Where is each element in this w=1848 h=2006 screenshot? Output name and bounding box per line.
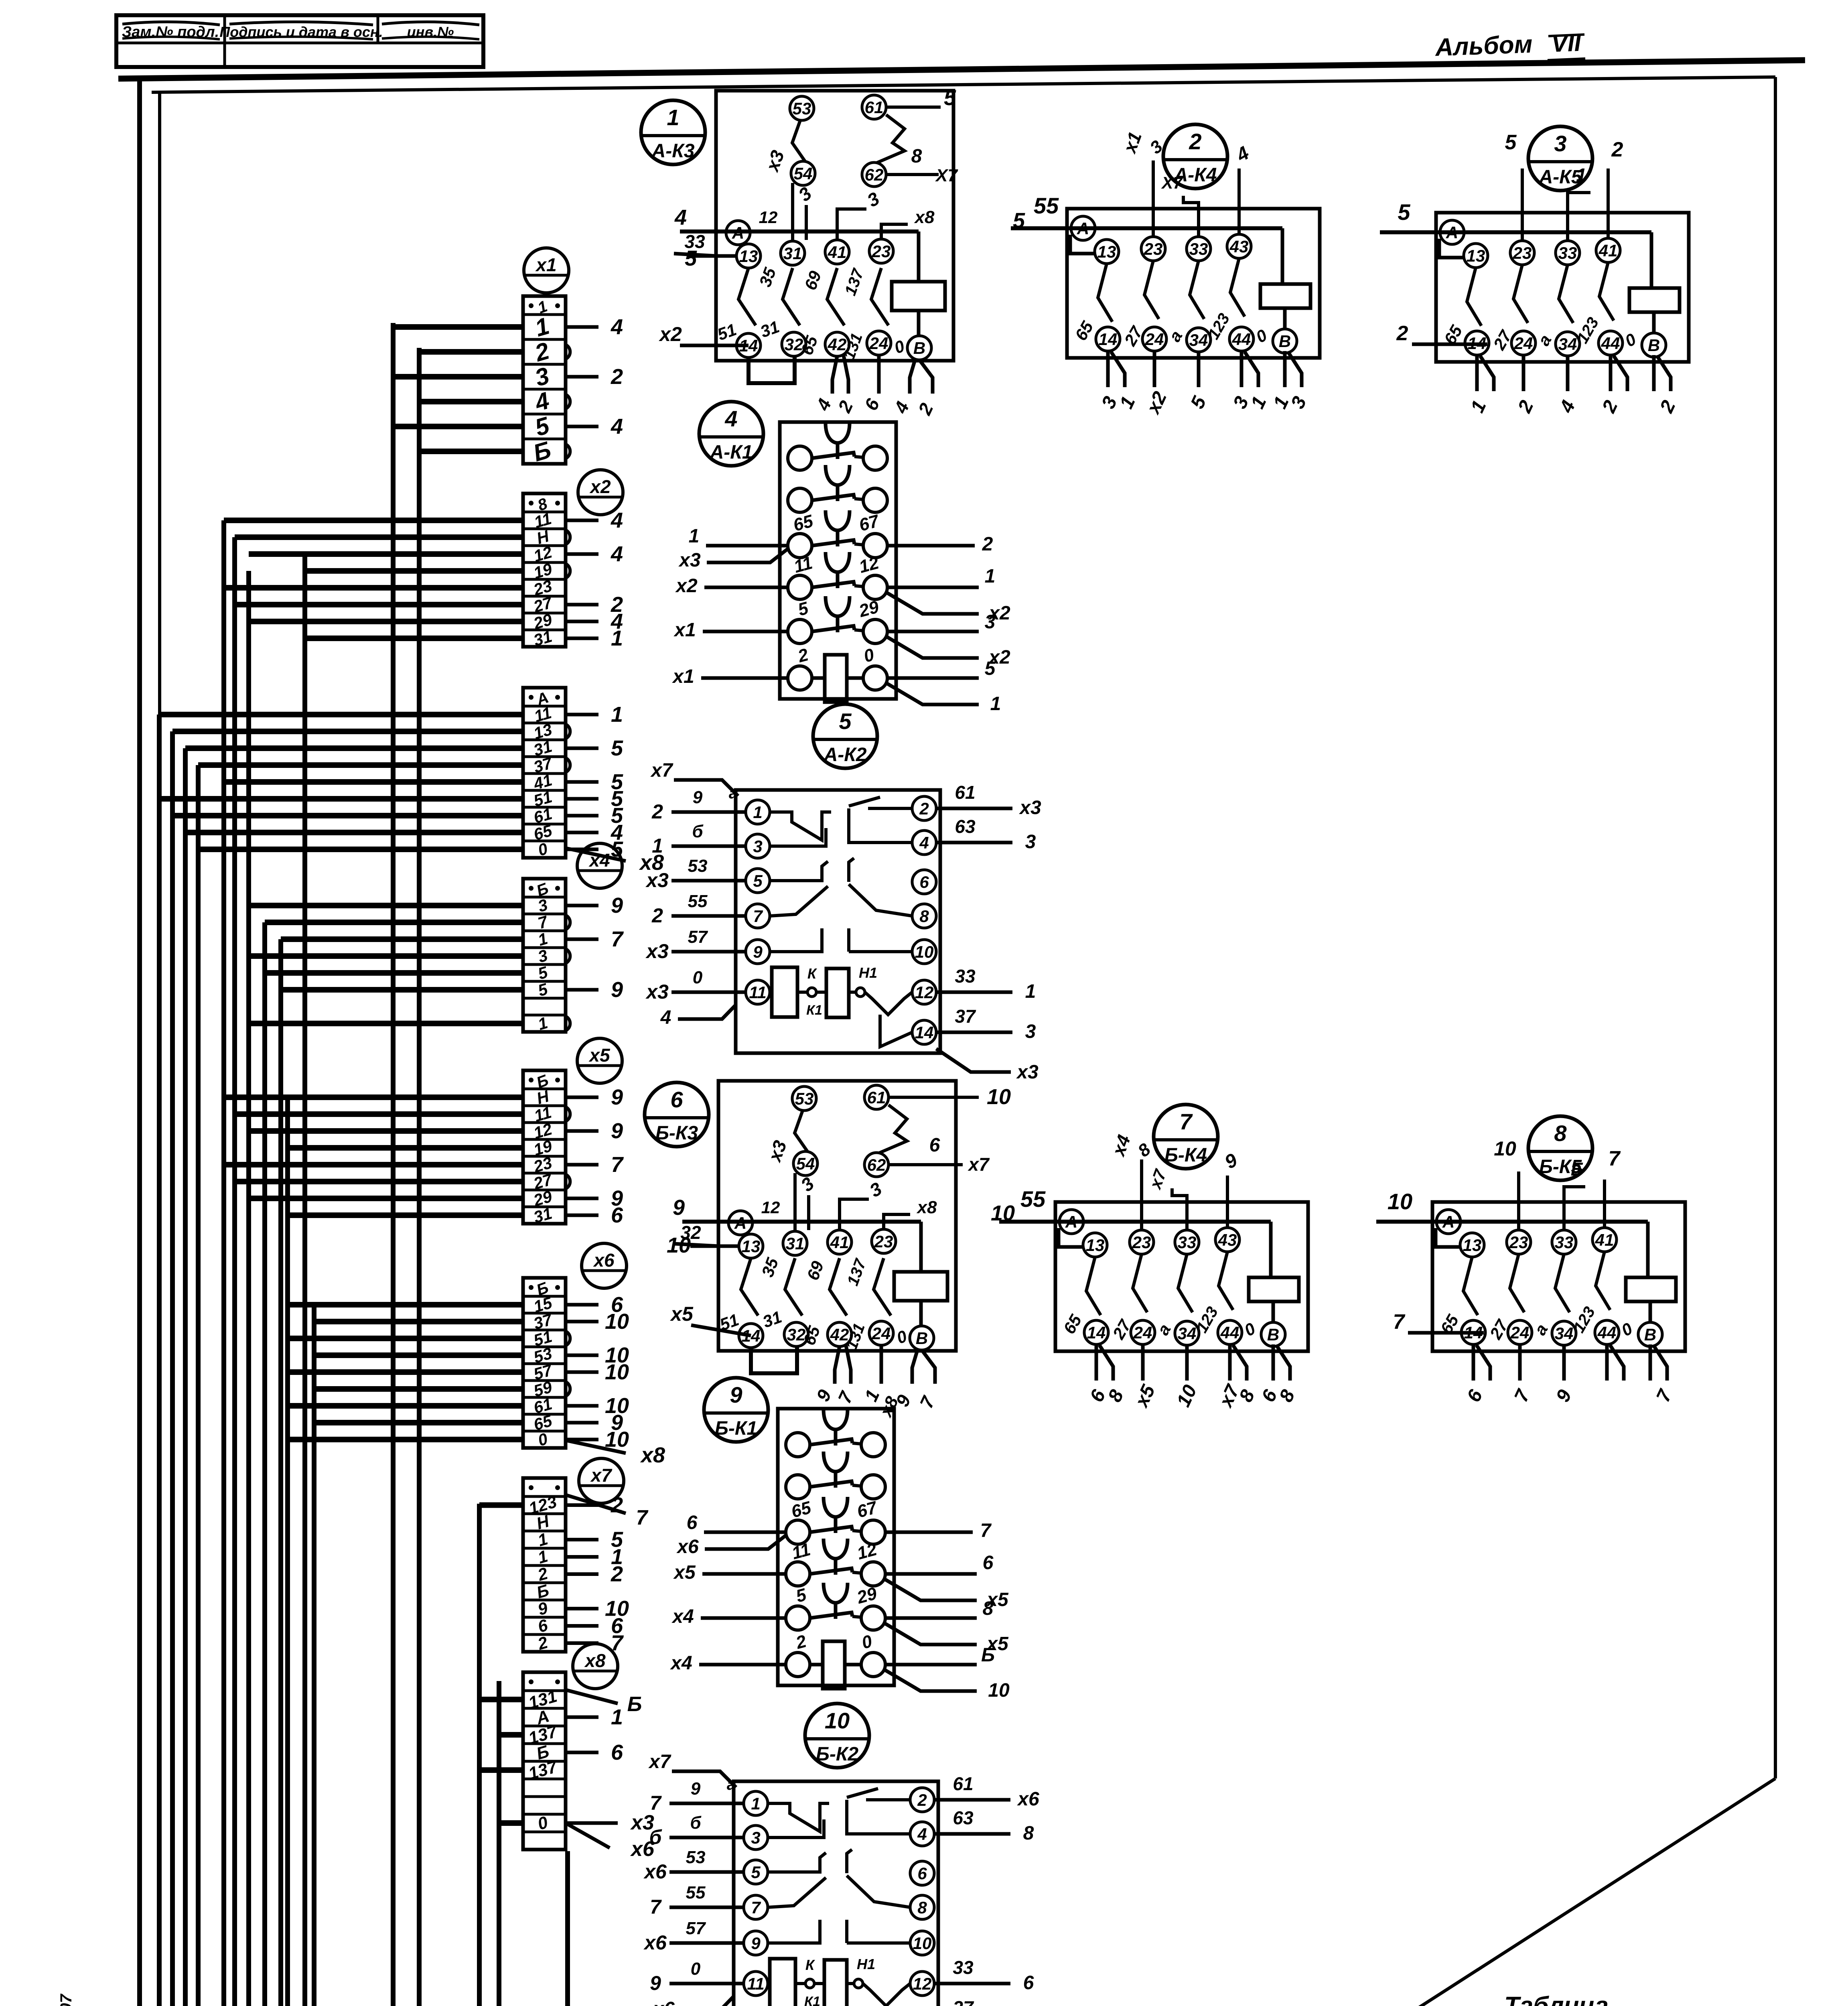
svg-text:4: 4 xyxy=(611,542,623,566)
svg-text:13: 13 xyxy=(742,1237,761,1256)
svg-text:2: 2 xyxy=(1396,322,1408,345)
svg-text:5: 5 xyxy=(611,736,623,760)
svg-text:43: 43 xyxy=(1229,237,1249,256)
svg-text:7: 7 xyxy=(650,1896,662,1918)
svg-text:х4: х4 xyxy=(588,850,610,871)
svg-text:6: 6 xyxy=(929,1135,940,1156)
svg-text:х4: х4 xyxy=(671,1606,694,1627)
svg-text:2: 2 xyxy=(651,800,663,823)
svg-text:8: 8 xyxy=(1023,1823,1034,1844)
svg-text:44: 44 xyxy=(1220,1323,1239,1342)
svg-text:11: 11 xyxy=(749,983,767,1002)
svg-text:5: 5 xyxy=(1013,209,1025,233)
svg-text:2: 2 xyxy=(651,904,663,927)
svg-text:1: 1 xyxy=(753,803,762,822)
svg-text:1: 1 xyxy=(1025,981,1036,1002)
svg-text:8: 8 xyxy=(919,907,929,926)
svg-text:3: 3 xyxy=(1025,831,1036,853)
svg-text:53: 53 xyxy=(795,1089,814,1108)
svg-text:53: 53 xyxy=(793,99,811,118)
svg-text:В: В xyxy=(1279,332,1291,351)
svg-text:12: 12 xyxy=(913,1974,932,1993)
svg-text:х3: х3 xyxy=(645,940,669,962)
svg-text:6: 6 xyxy=(687,1512,698,1533)
svg-text:44: 44 xyxy=(1232,330,1251,349)
svg-text:5: 5 xyxy=(1398,199,1410,225)
svg-text:х6: х6 xyxy=(652,1998,675,2006)
svg-text:0: 0 xyxy=(693,968,703,987)
svg-text:33: 33 xyxy=(1178,1233,1197,1252)
svg-text:61: 61 xyxy=(955,782,975,803)
svg-text:24: 24 xyxy=(1514,334,1533,353)
svg-text:2: 2 xyxy=(611,1562,623,1586)
svg-text:1: 1 xyxy=(611,1705,623,1729)
svg-text:33: 33 xyxy=(1558,244,1577,262)
svg-text:1: 1 xyxy=(985,566,996,587)
svg-text:57: 57 xyxy=(688,927,708,947)
svg-text:41: 41 xyxy=(830,1233,849,1252)
svg-text:В: В xyxy=(1644,1325,1656,1344)
svg-text:3: 3 xyxy=(753,837,762,856)
svg-text:х1: х1 xyxy=(671,666,694,687)
svg-text:12: 12 xyxy=(915,983,934,1002)
svg-text:9: 9 xyxy=(611,1119,623,1143)
svg-text:х2: х2 xyxy=(658,323,682,345)
svg-text:3: 3 xyxy=(1025,1021,1036,1042)
svg-text:1: 1 xyxy=(611,703,623,727)
svg-text:41: 41 xyxy=(1595,1230,1614,1249)
svg-text:1: 1 xyxy=(611,626,623,650)
svg-text:13: 13 xyxy=(1097,242,1116,261)
svg-text:33: 33 xyxy=(1189,240,1208,258)
svg-text:31: 31 xyxy=(786,1234,805,1253)
svg-text:11: 11 xyxy=(747,1974,765,1993)
svg-text:х3: х3 xyxy=(678,550,701,571)
svg-text:Б: Б xyxy=(981,1645,995,1666)
svg-text:х3: х3 xyxy=(645,869,669,891)
svg-text:10: 10 xyxy=(605,1360,629,1384)
svg-text:13: 13 xyxy=(1463,1236,1482,1255)
svg-text:57: 57 xyxy=(686,1919,706,1938)
svg-text:43: 43 xyxy=(1218,1230,1237,1249)
svg-text:6: 6 xyxy=(670,1087,683,1112)
svg-text:41: 41 xyxy=(1598,241,1618,260)
svg-text:31: 31 xyxy=(783,244,802,263)
svg-text:10: 10 xyxy=(913,1934,932,1953)
svg-text:3: 3 xyxy=(751,1828,760,1847)
svg-text:10: 10 xyxy=(991,1201,1015,1225)
svg-text:5: 5 xyxy=(751,1863,761,1882)
svg-text:54: 54 xyxy=(796,1154,815,1173)
svg-text:7: 7 xyxy=(751,1898,761,1917)
svg-text:9: 9 xyxy=(730,1382,742,1407)
svg-text:4: 4 xyxy=(611,315,623,339)
svg-text:7: 7 xyxy=(1179,1109,1193,1134)
svg-text:9: 9 xyxy=(611,1085,623,1109)
svg-text:3: 3 xyxy=(1554,131,1566,156)
svg-text:1: 1 xyxy=(652,834,663,857)
svg-text:Х7: Х7 xyxy=(935,166,958,185)
svg-text:5: 5 xyxy=(753,871,763,890)
svg-text:б: б xyxy=(649,1826,663,1848)
svg-text:23: 23 xyxy=(872,242,891,261)
svg-text:53: 53 xyxy=(688,856,708,876)
svg-text:9: 9 xyxy=(691,1779,701,1799)
svg-text:Б: Б xyxy=(627,1693,642,1716)
svg-text:12: 12 xyxy=(759,208,778,227)
svg-text:23: 23 xyxy=(874,1232,893,1251)
svg-text:Таблица: Таблица xyxy=(1504,1992,1609,2006)
svg-text:х6: х6 xyxy=(643,1860,667,1883)
svg-text:62: 62 xyxy=(865,165,884,184)
svg-text:Х7: Х7 xyxy=(1161,173,1183,192)
svg-text:23: 23 xyxy=(1509,1233,1528,1252)
svg-text:а: а xyxy=(729,784,738,802)
svg-text:Н1: Н1 xyxy=(857,1956,875,1972)
svg-text:2: 2 xyxy=(1189,129,1201,154)
svg-text:53: 53 xyxy=(686,1848,706,1867)
svg-text:6: 6 xyxy=(919,873,929,891)
svg-text:х8: х8 xyxy=(584,1650,606,1671)
svg-text:61: 61 xyxy=(865,98,884,117)
svg-text:13: 13 xyxy=(1086,1236,1105,1255)
svg-text:23: 23 xyxy=(1513,244,1532,262)
svg-text:37: 37 xyxy=(953,1997,974,2006)
svg-text:Б-К4: Б-К4 xyxy=(1164,1145,1207,1166)
svg-text:9: 9 xyxy=(611,978,623,1002)
svg-text:4: 4 xyxy=(724,406,737,431)
svg-text:23: 23 xyxy=(1144,240,1163,258)
svg-text:2: 2 xyxy=(1611,138,1623,161)
svg-text:5: 5 xyxy=(839,709,852,734)
svg-text:К1: К1 xyxy=(804,1994,820,2006)
svg-text:7: 7 xyxy=(611,1153,624,1177)
svg-text:33: 33 xyxy=(1555,1233,1574,1252)
svg-text:В: В xyxy=(916,1329,928,1348)
svg-text:х5: х5 xyxy=(588,1045,611,1066)
svg-text:х2: х2 xyxy=(589,476,611,497)
svg-text:10: 10 xyxy=(605,1310,629,1334)
svg-text:2: 2 xyxy=(611,365,623,389)
svg-text:13: 13 xyxy=(1467,246,1485,265)
svg-text:7: 7 xyxy=(1393,1310,1406,1334)
svg-text:4: 4 xyxy=(917,1825,927,1844)
svg-text:0: 0 xyxy=(691,1959,701,1979)
svg-text:х4: х4 xyxy=(669,1653,692,1674)
svg-text:х8: х8 xyxy=(914,207,935,227)
svg-text:б: б xyxy=(692,822,704,841)
svg-text:В: В xyxy=(1267,1325,1279,1344)
svg-text:6: 6 xyxy=(611,1740,623,1764)
svg-text:Б-К2: Б-К2 xyxy=(816,1744,858,1765)
svg-text:10: 10 xyxy=(825,1708,850,1733)
svg-text:33: 33 xyxy=(955,966,976,987)
svg-text:14: 14 xyxy=(1099,330,1118,349)
svg-text:14: 14 xyxy=(1087,1323,1106,1342)
svg-text:23: 23 xyxy=(1132,1233,1151,1252)
svg-text:х8: х8 xyxy=(640,1443,665,1467)
svg-text:х8: х8 xyxy=(917,1198,937,1217)
svg-text:1: 1 xyxy=(689,526,700,547)
svg-text:4: 4 xyxy=(660,1007,671,1028)
svg-text:х5: х5 xyxy=(673,1562,696,1583)
svg-text:Альбом: Альбом xyxy=(1434,30,1533,61)
svg-text:8: 8 xyxy=(983,1598,994,1619)
svg-text:5: 5 xyxy=(985,658,996,679)
svg-text:х3: х3 xyxy=(1018,797,1041,818)
svg-text:х7: х7 xyxy=(650,760,673,781)
svg-text:61: 61 xyxy=(953,1773,973,1794)
svg-text:х6: х6 xyxy=(643,1931,667,1954)
svg-text:2: 2 xyxy=(917,1791,927,1809)
svg-text:х6: х6 xyxy=(592,1250,615,1271)
svg-text:4: 4 xyxy=(919,833,929,852)
svg-text:13: 13 xyxy=(739,247,758,266)
svg-text:Б: Б xyxy=(1571,1159,1584,1180)
svg-text:Н1: Н1 xyxy=(859,964,877,981)
svg-text:х2: х2 xyxy=(675,575,698,597)
svg-text:А-К3: А-К3 xyxy=(651,140,695,162)
svg-text:7: 7 xyxy=(980,1520,992,1541)
svg-text:3: 3 xyxy=(985,611,996,633)
svg-text:7: 7 xyxy=(636,1506,649,1529)
svg-text:А-К2: А-К2 xyxy=(824,744,867,765)
svg-text:х3: х3 xyxy=(645,981,669,1003)
svg-text:А-К1: А-К1 xyxy=(710,442,753,463)
svg-text:б: б xyxy=(690,1813,702,1833)
svg-text:55: 55 xyxy=(688,891,708,911)
svg-text:4: 4 xyxy=(611,508,623,532)
svg-text:4: 4 xyxy=(611,414,623,439)
svg-text:20850-07: 20850-07 xyxy=(57,1994,75,2006)
svg-text:14: 14 xyxy=(915,1023,934,1042)
svg-text:44: 44 xyxy=(1601,334,1620,353)
svg-text:12: 12 xyxy=(761,1198,780,1217)
svg-text:7: 7 xyxy=(1609,1147,1621,1170)
svg-text:10: 10 xyxy=(1494,1137,1516,1160)
svg-text:55: 55 xyxy=(686,1883,706,1902)
svg-text:62: 62 xyxy=(867,1155,886,1174)
svg-text:Б-К3: Б-К3 xyxy=(655,1123,698,1144)
svg-text:10: 10 xyxy=(1388,1189,1412,1214)
svg-text:9: 9 xyxy=(650,1972,661,1994)
svg-text:10: 10 xyxy=(988,1680,1010,1701)
svg-text:55: 55 xyxy=(1034,193,1059,218)
svg-text:8: 8 xyxy=(917,1898,927,1917)
svg-text:1: 1 xyxy=(1576,164,1586,185)
svg-text:х1: х1 xyxy=(673,619,696,641)
svg-text:24: 24 xyxy=(869,334,889,353)
svg-text:10: 10 xyxy=(987,1085,1011,1109)
svg-text:54: 54 xyxy=(794,164,813,183)
svg-text:55: 55 xyxy=(1020,1186,1046,1212)
svg-text:К: К xyxy=(807,965,818,982)
svg-text:а: а xyxy=(727,1776,736,1793)
svg-text:В: В xyxy=(1648,336,1660,355)
svg-text:6: 6 xyxy=(1023,1972,1034,1994)
svg-text:5: 5 xyxy=(944,86,956,110)
svg-text:К1: К1 xyxy=(806,1003,822,1018)
svg-text:7: 7 xyxy=(650,1792,662,1814)
svg-text:41: 41 xyxy=(828,243,847,262)
svg-text:4: 4 xyxy=(674,205,687,229)
svg-text:7: 7 xyxy=(753,907,763,926)
svg-text:х6: х6 xyxy=(676,1536,699,1557)
svg-text:2: 2 xyxy=(919,799,929,818)
svg-text:1: 1 xyxy=(667,105,679,130)
svg-text:9: 9 xyxy=(753,942,763,961)
svg-text:24: 24 xyxy=(872,1324,891,1343)
svg-text:9: 9 xyxy=(693,788,703,807)
svg-text:6: 6 xyxy=(917,1864,927,1883)
svg-text:2: 2 xyxy=(982,534,993,555)
svg-text:63: 63 xyxy=(953,1807,974,1828)
svg-text:VII: VII xyxy=(1551,29,1582,57)
svg-text:В: В xyxy=(913,339,925,357)
svg-text:8: 8 xyxy=(1554,1121,1567,1146)
svg-text:х7: х7 xyxy=(590,1465,613,1486)
svg-text:10: 10 xyxy=(915,942,934,961)
svg-text:61: 61 xyxy=(867,1088,886,1107)
svg-text:К: К xyxy=(805,1957,815,1973)
svg-text:63: 63 xyxy=(955,816,976,837)
svg-text:44: 44 xyxy=(1597,1323,1617,1342)
svg-text:5: 5 xyxy=(1505,131,1517,154)
svg-text:5: 5 xyxy=(685,246,697,270)
svg-text:24: 24 xyxy=(1133,1323,1152,1342)
svg-text:х3: х3 xyxy=(1016,1062,1039,1083)
svg-text:х7: х7 xyxy=(967,1154,990,1175)
svg-text:9: 9 xyxy=(673,1196,685,1220)
svg-text:х5: х5 xyxy=(669,1303,694,1325)
svg-text:1: 1 xyxy=(751,1794,760,1813)
svg-text:1: 1 xyxy=(990,693,1001,715)
svg-text:8: 8 xyxy=(911,146,922,167)
svg-text:х6: х6 xyxy=(1016,1789,1039,1810)
svg-text:9: 9 xyxy=(611,893,623,918)
svg-text:6: 6 xyxy=(611,1203,623,1227)
svg-text:37: 37 xyxy=(955,1006,976,1027)
svg-text:6: 6 xyxy=(983,1552,994,1574)
svg-text:7: 7 xyxy=(611,927,624,951)
svg-text:9: 9 xyxy=(751,1934,761,1953)
svg-text:х7: х7 xyxy=(648,1751,671,1773)
svg-text:х1: х1 xyxy=(535,254,556,275)
svg-text:33: 33 xyxy=(953,1957,974,1978)
svg-text:24: 24 xyxy=(1145,330,1164,349)
svg-text:Б-К1: Б-К1 xyxy=(715,1418,757,1439)
svg-text:24: 24 xyxy=(1510,1323,1530,1342)
